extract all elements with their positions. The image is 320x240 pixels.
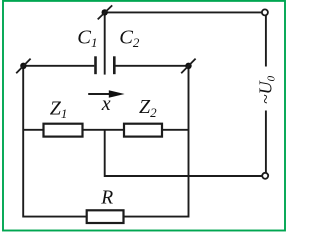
label C2 bbox=[119, 26, 140, 50]
wire: right rail down to bottom wire bbox=[122, 66, 189, 217]
wire: impedance branch wire bbox=[23, 129, 188, 131]
wire: lower source lead bbox=[265, 111, 267, 173]
svg-text:x: x bbox=[101, 93, 111, 115]
label x bbox=[101, 93, 111, 115]
wire: top wire from movable plate tap to upper terminal bbox=[105, 11, 262, 13]
impedance Z2 bbox=[124, 124, 162, 137]
capacitor C1 left plate bbox=[94, 56, 97, 74]
label Z1 bbox=[50, 97, 68, 121]
wire: upper source lead bbox=[265, 15, 267, 66]
node: right plate corner with slash bbox=[181, 59, 195, 74]
displacement arrow x bbox=[88, 90, 124, 97]
svg-text:R: R bbox=[100, 188, 113, 209]
terminal: upper source terminal bbox=[262, 9, 268, 15]
label ~U0 source voltage bbox=[256, 75, 278, 104]
node: movable plate tap with slash bbox=[98, 5, 113, 19]
movable center plate conductor bbox=[104, 13, 106, 75]
wire: left rail down to bottom wire bbox=[23, 66, 88, 217]
label R bbox=[100, 188, 113, 209]
wire: output wire from Z1-Z2 junction to lower terminal bbox=[105, 130, 262, 176]
resistor R bbox=[87, 210, 124, 223]
impedance Z1 bbox=[44, 124, 83, 137]
label C1 bbox=[77, 26, 97, 50]
wire: capacitor branch left segment bbox=[23, 65, 94, 67]
wire: capacitor branch right segment bbox=[116, 65, 189, 67]
node: left plate corner with slash bbox=[16, 59, 30, 74]
label Z2 bbox=[139, 96, 157, 120]
terminal: lower source terminal bbox=[262, 173, 268, 179]
capacitor C2 right plate bbox=[113, 56, 116, 74]
